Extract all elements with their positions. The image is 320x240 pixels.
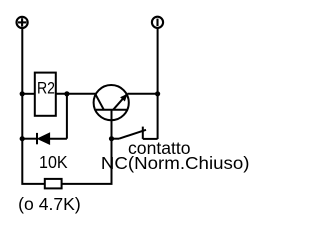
- svg-text:R2: R2: [37, 80, 55, 98]
- wire right rail: [157, 27, 159, 139]
- wire right mid (emitter to rail): [127, 93, 157, 95]
- wire left rail: [22, 28, 45, 184]
- node R2 right: [64, 91, 69, 96]
- node left rail diode: [20, 136, 25, 141]
- wire left mid: [22, 93, 35, 95]
- wire R2 to transistor: [56, 93, 96, 95]
- terminal right (output): [152, 17, 163, 28]
- wire diode branch vertical: [66, 94, 68, 139]
- wire bottom to base: [62, 139, 112, 184]
- terminal + (positive supply): [17, 17, 28, 28]
- svg-text:(o 4.7K): (o 4.7K): [18, 194, 80, 214]
- svg-text:NC(Norm.Chiuso): NC(Norm.Chiuso): [101, 153, 250, 173]
- svg-text:10K: 10K: [39, 152, 68, 172]
- node base junction: [109, 136, 114, 141]
- resistor R2 (box): [35, 73, 56, 116]
- transistor Q1: [94, 85, 129, 120]
- resistor 10K (box): [45, 179, 62, 189]
- node right rail: [155, 91, 160, 96]
- switch NC contact: [112, 127, 158, 139]
- diode D1: [22, 133, 67, 144]
- node left rail mid: [20, 91, 25, 96]
- wire base lead: [111, 110, 113, 139]
